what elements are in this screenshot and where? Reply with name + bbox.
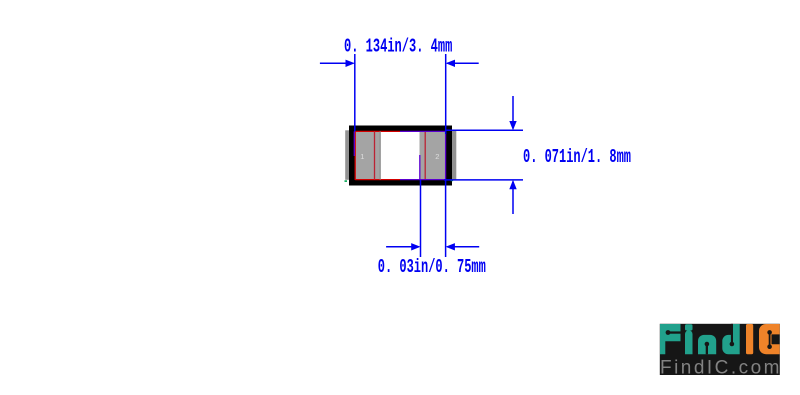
FindIC logo — [660, 324, 780, 379]
extension line left — [354, 54, 356, 132]
arrow leader left — [386, 246, 419, 248]
extension line top — [446, 129, 523, 131]
pad 1 inner land (gray) — [355, 131, 380, 179]
dimension: body height 0.071in/1.8mm — [444, 96, 523, 214]
svg-text:0. 03in/0. 75mm: 0. 03in/0. 75mm — [378, 256, 486, 278]
arrow leader right — [447, 246, 479, 248]
arrow leader left — [320, 62, 354, 64]
d circuit slot and via — [730, 324, 735, 347]
arrow leader right — [447, 62, 479, 64]
arrowhead down-pointing — [509, 121, 516, 130]
logo letter I (orange) — [746, 324, 753, 354]
corner tick (green, bottom-left) — [345, 180, 348, 182]
body outline variant (red) — [355, 131, 400, 180]
svg-text:2: 2 — [435, 152, 439, 161]
logo letter F (teal) — [660, 324, 681, 354]
pad 2 inner land (gray) — [420, 131, 446, 179]
C circuit vias and trace — [767, 330, 772, 349]
terminal pad 2 outer metallization (gray, right) — [442, 130, 456, 180]
pad edge lines variant (crimson) — [375, 131, 426, 179]
logo background — [660, 324, 780, 375]
dimension: pad width 0.03in/0.75mm — [386, 180, 479, 257]
svg-text:1: 1 — [360, 152, 364, 161]
terminal pad 1 outer metallization (gray, left) — [345, 130, 359, 180]
extension line left — [420, 180, 422, 257]
logo letter n (teal) — [698, 335, 716, 354]
n circuit slot and via — [705, 342, 710, 355]
arrowhead right-pointing — [346, 60, 355, 67]
arrow leader lower — [512, 182, 514, 215]
chip body (black thick outline, white interior) — [352, 129, 449, 183]
dimension: body width 0.134in/3.4mm — [320, 54, 479, 134]
pad 1 inner edge — [379, 131, 381, 179]
F circuit slot and via — [666, 330, 681, 335]
arrowhead left-pointing — [446, 60, 455, 67]
arrowhead right-pointing — [411, 243, 420, 250]
extension line right — [445, 54, 447, 134]
logo letter i (teal) — [685, 324, 693, 354]
corner tick (green, bottom-right) — [451, 180, 454, 182]
capacitor C1 package outline drawing — [345, 129, 457, 183]
arrowhead up-pointing — [509, 180, 516, 189]
logo letter d (teal) — [722, 324, 739, 354]
arrow leader upper — [512, 96, 514, 129]
extension line right — [445, 180, 447, 257]
svg-text:0. 071in/1. 8mm: 0. 071in/1. 8mm — [523, 146, 631, 168]
arrowhead left-pointing — [446, 243, 455, 250]
body outline variant (purple) — [354, 131, 445, 180]
extension line bottom — [444, 179, 523, 181]
logo letter C (orange) — [759, 324, 780, 354]
svg-text:0. 134in/3. 4mm: 0. 134in/3. 4mm — [344, 36, 452, 58]
